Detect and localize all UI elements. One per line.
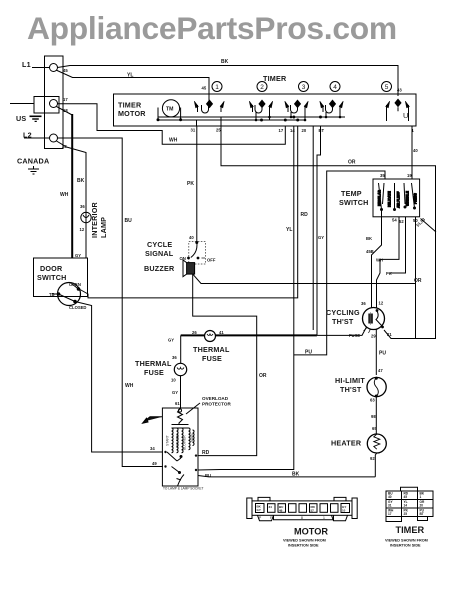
svg-text:40: 40: [413, 148, 418, 153]
svg-text:41: 41: [219, 330, 224, 335]
svg-text:BT: BT: [319, 128, 325, 133]
wire door common left: [52, 293, 59, 295]
svg-text:U: U: [403, 111, 408, 120]
neutral box on terminal block: [34, 97, 59, 114]
svg-text:12: 12: [379, 301, 384, 306]
wire down to lower thermal fuse: [180, 335, 182, 363]
svg-text:WH: WH: [125, 383, 134, 389]
svg-text:BK: BK: [221, 59, 229, 65]
svg-text:31: 31: [191, 128, 196, 133]
cycle signal buzzer body: [183, 260, 195, 277]
wire N stub left: [10, 103, 34, 105]
svg-text:1: 1: [420, 495, 422, 499]
G_MID: [34, 127, 416, 491]
svg-text:10: 10: [171, 378, 176, 383]
svg-text:TO LAMP & LAMP SOCKET: TO LAMP & LAMP SOCKET: [163, 487, 203, 491]
svg-text:43: 43: [397, 88, 402, 93]
svg-text:14: 14: [290, 128, 295, 133]
svg-text:INSERTION SIDE: INSERTION SIDE: [390, 544, 421, 548]
wire OR timer to right side: [221, 127, 436, 339]
svg-text:PU: PU: [305, 350, 312, 356]
wire L2 diag to lamp branch: [57, 141, 87, 258]
svg-text:AppliancePartsPros.com: AppliancePartsPros.com: [27, 10, 397, 46]
door switch box: [34, 258, 88, 297]
svg-text:25: 25: [404, 512, 408, 516]
svg-text:F: F: [270, 516, 272, 520]
svg-text:OR: OR: [348, 160, 356, 166]
svg-text:PU: PU: [379, 351, 386, 357]
overload protector: [178, 408, 183, 425]
svg-text:SWITCH: SWITCH: [339, 198, 369, 207]
svg-text:FUSE: FUSE: [202, 354, 222, 363]
wire pin pair thin: [312, 127, 314, 331]
svg-text:BU: BU: [125, 218, 133, 224]
svg-text:MOTOR: MOTOR: [118, 109, 146, 118]
label CYCLE SIGNAL: [145, 240, 174, 258]
timer connector grid: [386, 487, 433, 521]
cam 2: [257, 82, 267, 92]
motor internal windings: [166, 425, 195, 453]
svg-text:WH: WH: [169, 138, 178, 144]
interior lamp: [81, 212, 91, 222]
contact group 4: [320, 100, 343, 119]
svg-text:40: 40: [189, 235, 194, 240]
cam 4: [330, 82, 340, 92]
terminal L1: [50, 64, 58, 72]
motor connector pin labels: [257, 505, 347, 513]
wire door closed down to motor: [75, 302, 163, 453]
svg-text:20: 20: [302, 128, 307, 133]
G_RIGHT: [221, 127, 436, 477]
svg-text:31: 31: [388, 504, 392, 508]
motor internal switch: [167, 452, 182, 474]
svg-text:AIR FLUFF: AIR FLUFF: [397, 191, 401, 208]
svg-text:12: 12: [80, 227, 85, 232]
svg-text:40: 40: [388, 495, 392, 499]
timer connector cell labels: [388, 492, 425, 517]
svg-text:49: 49: [152, 461, 157, 466]
svg-text:SIGNAL: SIGNAL: [145, 249, 174, 258]
svg-text:1: 1: [323, 516, 325, 520]
svg-text:MOTOR: MOTOR: [294, 527, 328, 537]
G_BOTTOM: [247, 487, 433, 547]
label timer viewed from: [385, 539, 428, 548]
contact group 1: [194, 100, 224, 114]
wire heater down to BK: [375, 453, 377, 477]
wire hi-limit to heater: [375, 397, 377, 434]
svg-text:OR: OR: [259, 373, 267, 379]
svg-text:CANADA: CANADA: [17, 157, 49, 166]
motor centrifugal bottom: [177, 475, 185, 487]
svg-text:BT: BT: [420, 512, 424, 516]
label TIMER MOTOR: [118, 101, 146, 119]
svg-text:YL: YL: [286, 227, 292, 233]
svg-text:WH: WH: [376, 258, 383, 263]
svg-text:3: 3: [302, 84, 306, 91]
motor connector pins: [256, 504, 350, 513]
cam 5: [382, 82, 392, 92]
cam 3: [299, 82, 309, 92]
svg-text:RD: RD: [202, 450, 210, 456]
svg-text:36: 36: [361, 301, 366, 306]
wire YL L1 diag: [56, 70, 209, 103]
label TEMP SWITCH: [339, 189, 369, 207]
temp pin labels bottom: [392, 216, 427, 227]
svg-text:PROTECTOR: PROTECTOR: [202, 402, 231, 407]
svg-text:START: START: [166, 435, 170, 446]
svg-text:GY: GY: [75, 253, 81, 258]
svg-text:17: 17: [63, 97, 68, 102]
svg-text:54: 54: [392, 218, 397, 223]
terminal L2: [50, 134, 58, 142]
svg-text:OVERLOAD: OVERLOAD: [202, 396, 229, 401]
svg-text:GY: GY: [257, 508, 261, 512]
buzzer switch blade: [188, 242, 205, 259]
wire L1 stub: [32, 67, 50, 69]
thermal fuse lower: [174, 363, 186, 375]
svg-text:4: 4: [333, 84, 337, 91]
svg-text:HI-LIMIT: HI-LIMIT: [335, 376, 365, 385]
wire fuse terminal: [317, 327, 367, 335]
contact group 3: [285, 100, 308, 122]
svg-text:8: 8: [301, 516, 303, 520]
svg-text:GY: GY: [172, 390, 178, 395]
wire BU from L2 down: [58, 138, 164, 467]
wire cycling to hi-limit PU: [375, 330, 377, 376]
svg-text:THERMAL: THERMAL: [193, 345, 230, 354]
contact group 2: [249, 100, 272, 122]
door switch rotary: [57, 283, 80, 306]
label motor viewed from: [283, 539, 326, 548]
svg-text:TEMP: TEMP: [341, 189, 362, 198]
ground US: [30, 116, 42, 121]
wire L2 stub: [24, 137, 50, 139]
svg-text:L1: L1: [22, 60, 31, 69]
svg-text:45: 45: [202, 86, 207, 91]
wire temp out 1: [372, 210, 382, 308]
svg-text:45B: 45B: [366, 249, 374, 254]
ground CANADA: [28, 166, 39, 174]
temp switch box: [373, 179, 420, 217]
svg-text:63: 63: [370, 398, 375, 403]
svg-text:17: 17: [279, 128, 284, 133]
svg-text:36: 36: [80, 204, 85, 209]
wire N to neutral bus: [58, 104, 286, 144]
timer pin stub 31: [196, 120, 198, 127]
svg-text:DOOR: DOOR: [40, 264, 63, 273]
svg-text:45: 45: [404, 495, 408, 499]
svg-text:14: 14: [404, 504, 408, 508]
motor out RD terminal: [195, 454, 197, 471]
temp diag right: [421, 219, 437, 233]
svg-text:1: 1: [215, 84, 219, 91]
wire temp out OR: [415, 217, 417, 339]
svg-text:TIMER: TIMER: [396, 525, 425, 535]
svg-text:10: 10: [342, 509, 346, 513]
svg-text:WH: WH: [60, 192, 69, 198]
wire temp out 3: [390, 217, 406, 273]
svg-text:45: 45: [63, 68, 68, 73]
svg-text:47: 47: [378, 368, 383, 373]
hi-limit thermostat: [367, 377, 386, 397]
wire motor BU out to timer pin14: [198, 127, 294, 471]
svg-text:THERMAL: THERMAL: [135, 359, 172, 368]
buzzer switch dashed box: [189, 242, 206, 264]
svg-text:35: 35: [380, 173, 385, 178]
svg-text:HEATER: HEATER: [331, 439, 362, 448]
label THERMAL FUSE lower: [135, 359, 172, 377]
svg-text:BK: BK: [77, 178, 85, 184]
svg-text:28: 28: [62, 144, 67, 149]
wire buzzer out right OR: [193, 274, 416, 283]
wire cyc right to OR: [384, 330, 416, 339]
svg-text:CLOSED: CLOSED: [69, 305, 86, 310]
svg-text:SWITCH: SWITCH: [37, 273, 67, 282]
svg-text:PK: PK: [187, 181, 194, 187]
label HI-LIMIT TH'ST: [335, 376, 365, 394]
svg-text:INSERTION SIDE: INSERTION SIDE: [288, 544, 319, 548]
timer bus junction dots: [260, 116, 322, 122]
svg-text:WRINKLE: WRINKLE: [406, 191, 410, 206]
contact group 5: [386, 99, 410, 122]
temp switch contacts: [378, 183, 418, 211]
wire BU timer U to temp switch: [411, 127, 413, 180]
svg-text:CYCLE: CYCLE: [147, 240, 172, 249]
timer bus upper: [158, 116, 345, 118]
wire door switch to timer RD: [80, 127, 298, 298]
wire BK L1 to timer pin 5: [58, 66, 399, 97]
svg-text:OR: OR: [414, 278, 422, 284]
label THERMAL FUSE upper: [193, 345, 230, 363]
svg-text:92: 92: [370, 456, 375, 461]
svg-text:LAMP: LAMP: [99, 217, 108, 238]
G_TIMER: [114, 74, 417, 133]
svg-text:PK: PK: [386, 271, 392, 276]
motor connector shell: [247, 497, 357, 520]
svg-text:TIMER: TIMER: [263, 74, 287, 83]
svg-text:98: 98: [371, 414, 376, 419]
svg-text:INTERIOR: INTERIOR: [90, 201, 99, 238]
svg-text:2: 2: [260, 84, 264, 91]
svg-text:TM: TM: [166, 107, 174, 113]
terminal block TB1: [45, 56, 64, 149]
svg-text:CYCLING: CYCLING: [326, 308, 360, 317]
svg-text:FUSE: FUSE: [144, 368, 164, 377]
wire temp feed loop: [294, 171, 385, 355]
svg-text:52: 52: [399, 219, 404, 224]
svg-text:TH'ST: TH'ST: [340, 385, 362, 394]
svg-text:49: 49: [279, 509, 283, 513]
G_MAIN: [10, 56, 398, 467]
svg-text:65: 65: [372, 426, 377, 431]
svg-text:36: 36: [172, 355, 177, 360]
svg-text:29: 29: [371, 334, 376, 339]
svg-text:OFF: OFF: [207, 258, 216, 263]
svg-text:61: 61: [175, 401, 180, 406]
timer motor TM: [157, 100, 183, 122]
motor connector pin numbers below: [259, 516, 325, 520]
timer bus lower: [158, 119, 305, 121]
svg-text:DELICATE: DELICATE: [388, 191, 392, 207]
svg-text:34: 34: [269, 505, 273, 509]
ground motor: [143, 417, 163, 423]
svg-text:VIEWED SHOWN FROM: VIEWED SHOWN FROM: [283, 539, 326, 543]
svg-text:US: US: [16, 114, 26, 123]
label DOOR SWITCH: [37, 264, 67, 282]
thermal fuse upper wire thick: [181, 334, 317, 336]
svg-text:17: 17: [388, 512, 392, 516]
timer pin stub 25: [220, 117, 222, 127]
svg-text:57: 57: [311, 509, 315, 513]
wire PU thick timer down: [317, 127, 321, 336]
wire buzzer down to motor RD loop: [193, 274, 257, 456]
svg-text:TH'ST: TH'ST: [332, 317, 354, 326]
svg-text:VIEWED SHOWN FROM: VIEWED SHOWN FROM: [385, 539, 428, 543]
svg-text:MAIN: MAIN: [190, 433, 194, 442]
svg-text:26: 26: [192, 330, 197, 335]
label INTERIOR LAMP: [90, 201, 108, 238]
svg-text:BK: BK: [292, 472, 300, 478]
wire motor BK out to heater: [198, 476, 375, 477]
wire lower fuse to motor: [180, 376, 182, 408]
svg-text:GY: GY: [168, 338, 174, 343]
wire N diag to thick WH: [57, 107, 73, 116]
svg-text:OPEN: OPEN: [69, 282, 81, 287]
svg-text:REGULAR: REGULAR: [378, 190, 382, 206]
svg-text:PRESS: PRESS: [414, 193, 418, 204]
wire PK timer to buzzer: [196, 127, 198, 242]
terminal N: [50, 100, 58, 108]
svg-text:BUZZER: BUZZER: [144, 264, 175, 273]
cam 1: [212, 82, 222, 92]
motor terminal dots left: [164, 451, 166, 468]
timer box: [114, 94, 417, 126]
svg-text:34: 34: [150, 446, 155, 451]
svg-text:5: 5: [385, 84, 389, 91]
heater: [367, 434, 386, 453]
svg-text:RD: RD: [301, 212, 309, 218]
cycling thermostat: [363, 308, 385, 334]
svg-text:GY: GY: [318, 235, 324, 240]
label OVERLOAD PROTECTOR: [186, 396, 231, 414]
label CYCLING TH'ST: [326, 308, 360, 326]
wire temp out 2: [377, 217, 400, 308]
svg-text:BK: BK: [366, 236, 372, 241]
svg-text:19: 19: [407, 173, 412, 178]
svg-text:18: 18: [63, 108, 68, 113]
motor box: [162, 408, 198, 486]
svg-text:20: 20: [420, 504, 424, 508]
svg-text:YL: YL: [127, 73, 133, 79]
wire WH thick down to door switch: [71, 114, 73, 258]
thermal fuse upper: [205, 331, 216, 342]
